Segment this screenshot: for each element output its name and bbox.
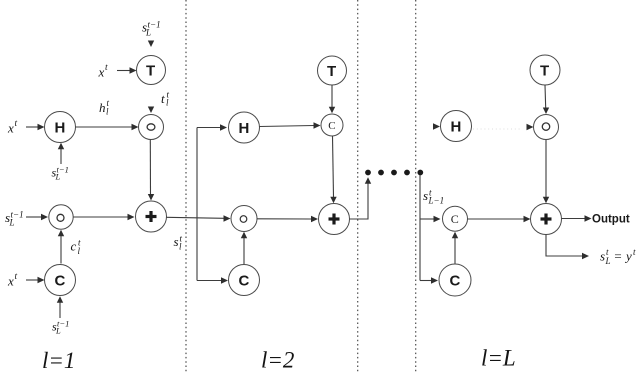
wire trunk to M3 bbox=[420, 216, 441, 222]
node P2 (adder) bbox=[319, 204, 350, 235]
svg-text:C: C bbox=[450, 273, 461, 290]
svg-text:c: c bbox=[71, 239, 77, 254]
label s_l^t bbox=[174, 234, 183, 252]
node T1 bbox=[137, 56, 166, 85]
node M1 (elementwise product) bbox=[49, 205, 73, 229]
wire C2 up to M2 bbox=[241, 232, 247, 264]
arrowhead from T1 gate into G1 bbox=[148, 107, 154, 114]
wire branch vertical in l=2 bbox=[196, 128, 198, 281]
arrowhead from s_L^(t-1) into T1 bbox=[148, 41, 154, 48]
svg-text:=: = bbox=[614, 249, 623, 264]
wire s_L^(t-1) to M1 bbox=[26, 214, 48, 220]
wire branch to C2 bbox=[197, 277, 228, 283]
wire M2 to P2 bbox=[257, 216, 318, 222]
node P3 (adder) bbox=[531, 204, 562, 235]
svg-text:x: x bbox=[7, 121, 14, 136]
svg-text:x: x bbox=[98, 65, 105, 80]
node G3 (elementwise gate circle) bbox=[534, 115, 559, 140]
svg-text:C: C bbox=[328, 120, 335, 132]
wire x^t to H1 bbox=[26, 124, 45, 130]
svg-text:H: H bbox=[55, 120, 66, 137]
wire P2 output up to ellipsis bbox=[350, 177, 372, 219]
arrowhead into G3 bbox=[527, 124, 534, 130]
wire C3 up to M3 bbox=[452, 232, 458, 264]
svg-text:l=2: l=2 bbox=[261, 348, 294, 373]
svg-text:x: x bbox=[7, 274, 14, 289]
wire M1 to P1 bbox=[73, 214, 134, 220]
divider between l=1 and l=2 bbox=[185, 0, 187, 374]
divider left of ellipsis bbox=[357, 0, 359, 374]
wire M3 to P3 bbox=[468, 216, 531, 222]
svg-text:y: y bbox=[624, 249, 632, 264]
svg-text:s: s bbox=[174, 234, 179, 249]
svg-text:s: s bbox=[600, 249, 605, 264]
wire T3 down to G3 bbox=[543, 85, 549, 114]
label s_L^(t-1) below C1 bbox=[52, 319, 69, 336]
svg-text:l=1: l=1 bbox=[42, 348, 75, 373]
label x^t (input to H1) bbox=[7, 119, 18, 136]
wire C1 up to M1 bbox=[58, 230, 64, 264]
svg-text:H: H bbox=[451, 119, 462, 136]
wire x^t to C1 bbox=[26, 277, 45, 283]
svg-text:L: L bbox=[55, 172, 61, 182]
node H1 bbox=[45, 112, 76, 143]
svg-text:s: s bbox=[423, 188, 428, 203]
svg-text:L: L bbox=[145, 28, 151, 38]
label s_L^(t-1) left of M1 bbox=[5, 210, 24, 228]
svg-text:L: L bbox=[55, 326, 61, 336]
label t_l^t bbox=[161, 90, 170, 108]
wire x^t to T1 bbox=[117, 67, 137, 73]
node C2 bbox=[229, 265, 260, 296]
node M3 (gate circle with small c) bbox=[443, 206, 468, 231]
node C3 bbox=[439, 264, 471, 296]
arrowhead into H3 bbox=[433, 123, 440, 129]
node T2 bbox=[318, 56, 347, 85]
svg-text:l=L: l=L bbox=[481, 346, 516, 371]
node M2 (elementwise product) bbox=[231, 206, 257, 232]
label x^t (input to T1) bbox=[98, 63, 109, 80]
wire G2 down to P2 bbox=[330, 136, 336, 203]
svg-text:C: C bbox=[451, 212, 459, 226]
label s_L^(t-1) below H1 bbox=[52, 165, 69, 182]
wire s_L^(t-1) up into C1 bbox=[57, 296, 63, 318]
wire from last dot down l=L trunk bbox=[419, 175, 421, 281]
node H2 bbox=[229, 112, 260, 143]
svg-text:L: L bbox=[605, 256, 611, 266]
wire s_L^(t-1) up into H1 bbox=[58, 143, 64, 164]
svg-text:T: T bbox=[327, 63, 336, 80]
label c_l^t bbox=[71, 238, 82, 257]
svg-text:h: h bbox=[99, 100, 106, 115]
svg-text:t: t bbox=[105, 63, 108, 73]
ellipsis dots bbox=[365, 170, 423, 176]
wire P3 down to s_L^t = y^t bbox=[546, 235, 589, 260]
label s_L^t = y^t bbox=[600, 247, 636, 266]
wire H2 to G2 bbox=[260, 122, 321, 128]
node G1 (elementwise gate circle) bbox=[139, 115, 164, 140]
svg-text:T: T bbox=[540, 63, 549, 80]
wire trunk to C3 bbox=[420, 277, 438, 283]
label s_L^(t-1) above T1 bbox=[142, 20, 161, 38]
svg-text:H: H bbox=[239, 120, 250, 137]
label x^t (input to C1) bbox=[7, 272, 18, 289]
label s_(L-1)^t bbox=[423, 188, 444, 206]
svg-text:Output: Output bbox=[592, 214, 630, 226]
node H3 bbox=[441, 111, 472, 142]
wire P3 to Output bbox=[562, 215, 592, 221]
wire P1 output across divider to M2 bbox=[167, 215, 231, 221]
wire G3 down to P3 bbox=[543, 140, 549, 204]
svg-text:C: C bbox=[239, 273, 250, 290]
divider between ellipsis and l=L bbox=[415, 0, 417, 374]
wire T2 down to G2 bbox=[329, 85, 335, 113]
svg-text:T: T bbox=[146, 63, 155, 80]
label h_l^t bbox=[99, 98, 110, 117]
svg-text:L−1: L−1 bbox=[428, 196, 445, 206]
node T3 bbox=[530, 55, 560, 85]
node C1 bbox=[45, 265, 76, 296]
wire G1 down to P1 bbox=[148, 140, 154, 201]
node G2 (gate circle with small c) bbox=[321, 114, 343, 136]
svg-text:t: t bbox=[161, 91, 165, 106]
svg-text:t: t bbox=[15, 272, 18, 282]
node P1 (adder) bbox=[136, 201, 167, 232]
wire branch to H2 bbox=[197, 124, 227, 130]
svg-text:L: L bbox=[9, 218, 15, 228]
svg-text:C: C bbox=[55, 273, 66, 290]
wire H1 to G1 with label h_l^t bbox=[76, 124, 139, 130]
svg-text:t: t bbox=[15, 119, 18, 129]
faint dotted wire H3 to G3 bbox=[473, 128, 522, 130]
